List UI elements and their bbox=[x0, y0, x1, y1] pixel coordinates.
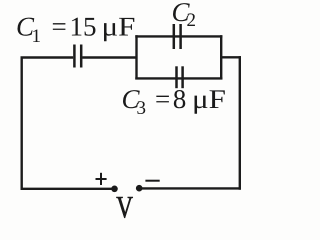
label C3 = 8 uF bbox=[123, 90, 225, 114]
capacitor C1 plates bbox=[73, 45, 76, 68]
battery terminal dot right bbox=[136, 185, 143, 192]
label C2 bbox=[173, 3, 195, 26]
label C1 = 15 uF bbox=[18, 18, 135, 42]
capacitor C3 plates bbox=[175, 66, 178, 88]
battery plus sign bbox=[96, 173, 107, 185]
wire top segment (C1 to parallel box) bbox=[82, 56, 137, 58]
wire mid exit to right side bbox=[221, 56, 241, 58]
node right edge of parallel box bbox=[220, 35, 222, 79]
wire left vertical bbox=[21, 58, 23, 190]
wire bottom left segment bbox=[21, 188, 114, 190]
capacitor C2 plates bbox=[173, 24, 176, 49]
node left edge of parallel box bbox=[135, 35, 137, 79]
battery terminal dot left bbox=[111, 186, 118, 193]
battery minus sign bbox=[145, 180, 159, 182]
wire bottom branch of parallel box bbox=[135, 77, 222, 79]
label V bbox=[116, 197, 132, 218]
wire right vertical bbox=[239, 56, 241, 190]
wire bottom right segment bbox=[140, 187, 241, 189]
wire top branch of parallel box bbox=[135, 35, 222, 37]
wire top segment (left corner to C1) bbox=[21, 56, 74, 58]
